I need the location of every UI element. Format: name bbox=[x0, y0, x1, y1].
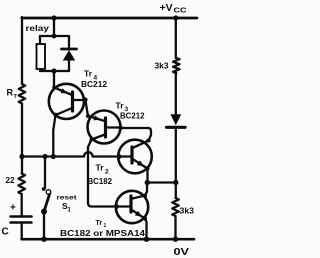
wire: left rail down to 22 resistor bbox=[21, 157, 23, 174]
wire: diode D2 to junction bbox=[175, 127, 177, 182]
node: junction dot on +Vcc rail above 3k3 bbox=[173, 15, 178, 20]
node: timing node junction dot on left rail bbox=[19, 154, 24, 159]
svg-text:relay: relay bbox=[26, 24, 50, 33]
svg-text:Tr: Tr bbox=[96, 163, 105, 173]
transistor Tr3 emitter (PNP arrow into base) bbox=[88, 116, 104, 121]
svg-text:R: R bbox=[7, 88, 14, 98]
svg-text:T: T bbox=[14, 94, 18, 100]
wire: relay bar down to Tr4 emitter bbox=[53, 71, 55, 87]
transistor Tr4 collector bbox=[53, 108, 72, 157]
wire: left rail from +Vcc down to RT bbox=[21, 17, 23, 84]
transistor Tr2 circle bbox=[118, 140, 152, 174]
transistor Tr3 base bar bbox=[104, 118, 107, 137]
svg-text:2: 2 bbox=[105, 169, 109, 176]
wire: Tr3 base to Tr2 collector bbox=[121, 128, 152, 148]
wire: top bar down to relay coil bbox=[39, 36, 41, 44]
wire: Tr1 base inside circle bbox=[117, 205, 130, 207]
node: dot Tr1 base at circle edge bbox=[114, 204, 119, 209]
svg-text:3k3: 3k3 bbox=[155, 62, 170, 71]
wire: Tr3 collector long vertical down to Tr1 base bbox=[88, 147, 117, 207]
svg-text:3k3: 3k3 bbox=[180, 207, 195, 216]
transistor Tr1 base bar bbox=[129, 196, 132, 212]
svg-text:BC212: BC212 bbox=[120, 112, 145, 121]
wire: relay/diode top bar bbox=[40, 35, 69, 37]
svg-text:Tr: Tr bbox=[96, 220, 103, 227]
wire: 0V bottom rail bbox=[22, 238, 194, 241]
wire: relay/diode bottom bar bbox=[40, 70, 69, 72]
node: junction dot on right rail bbox=[173, 180, 178, 185]
wire: diode branch from top bar bbox=[68, 36, 70, 49]
wire: capacitor to 0V rail bbox=[21, 223, 23, 240]
transistor Tr4 emitter (PNP arrow into base) bbox=[54, 88, 71, 95]
wire: junction down to 3k3 bottom bbox=[175, 183, 177, 199]
transistor Tr1 circle bbox=[116, 191, 148, 223]
wire: junction to right rail bbox=[147, 181, 176, 183]
transistor Tr4 base bar bbox=[71, 92, 74, 111]
node: dot reset-switch branch bbox=[42, 154, 47, 159]
svg-text:BC182: BC182 bbox=[88, 177, 113, 186]
wire: diode anode to bottom bar bbox=[68, 61, 70, 72]
wire: Tr3 base lead bbox=[107, 126, 121, 128]
wire: 3k3 bottom to 0V rail bbox=[174, 216, 176, 239]
resistor RT bbox=[19, 84, 26, 104]
switch S1 fixed contact bbox=[42, 187, 46, 191]
node: junction dot Tr2 emitter / Tr1 collector bbox=[145, 180, 150, 185]
transistor Tr3 circle bbox=[88, 111, 121, 144]
svg-text:Tr: Tr bbox=[116, 101, 125, 111]
diode D2 triangle (pointing down) bbox=[170, 114, 181, 125]
switch S1 bottom contact dot bbox=[41, 209, 47, 215]
wire: relay coil to bottom bar bbox=[39, 69, 41, 71]
transistor Tr2 collector bbox=[134, 141, 149, 148]
relay coil (rectangle) bbox=[37, 44, 46, 69]
transistor Tr1 collector bbox=[133, 183, 147, 199]
wire: long horizontal timing node to Tr2 base (hops over vertical) bbox=[22, 152, 131, 156]
transistor Tr2 base bar bbox=[130, 147, 133, 163]
resistor 3k3 (top) bbox=[173, 58, 180, 73]
diode D1 flyback cathode bar bbox=[62, 48, 77, 51]
node: dot 3k3 on 0V rail bbox=[173, 237, 178, 242]
wire: right rail from +Vcc to 3k3 bbox=[175, 18, 177, 58]
switch S1 lever bbox=[44, 194, 49, 210]
wire: 3k3 to diode D2 bbox=[175, 73, 177, 115]
svg-text:BC182 or MPSA14: BC182 or MPSA14 bbox=[60, 229, 146, 238]
wire: +Vcc top rail bbox=[22, 17, 197, 20]
wire: left rail RT to timing node bbox=[21, 104, 23, 157]
wire: 22 resistor to capacitor C bbox=[21, 194, 23, 216]
wire: Tr4 base lead bbox=[74, 99, 85, 101]
wire: switch S1 to 0V rail bbox=[43, 212, 45, 240]
transistor Tr3 collector bbox=[88, 135, 105, 148]
wire: Tr4 base down to Tr3 emitter bbox=[85, 100, 88, 116]
wire: stub from +Vcc rail down to relay/diode bar bbox=[53, 18, 55, 36]
wire: reset switch branch down from timing node bbox=[44, 157, 46, 189]
node: dot Tr4 collector joins timing-node wire bbox=[51, 154, 56, 159]
svg-text:CC: CC bbox=[174, 8, 187, 15]
node: dot Tr1 emitter on 0V rail bbox=[144, 237, 149, 242]
transistor Tr2 emitter (NPN arrow away from base) bbox=[133, 159, 148, 169]
transistor Tr1 emitter (NPN arrow away from base) bbox=[133, 211, 147, 240]
resistor 22 bbox=[18, 174, 25, 195]
capacitor C plates bbox=[11, 215, 32, 218]
transistor Tr4 circle bbox=[49, 84, 84, 119]
node: dot Tr3 base at circle edge bbox=[118, 125, 123, 130]
diode D1 flyback triangle (pointing up) bbox=[63, 50, 75, 61]
diode D2 cathode bar bbox=[167, 126, 186, 129]
resistor 3k3 (bottom) bbox=[172, 198, 179, 216]
svg-text:1: 1 bbox=[68, 208, 72, 214]
node: junction dot at relay/diode top bar bbox=[52, 34, 57, 39]
svg-text:22: 22 bbox=[6, 175, 15, 185]
svg-text:+: + bbox=[10, 203, 16, 214]
node: dot Tr2 base at circle edge bbox=[117, 154, 122, 159]
svg-text:+V: +V bbox=[160, 2, 173, 14]
svg-text:Tr: Tr bbox=[84, 69, 93, 79]
wire: Tr2 emitter down to junction bbox=[146, 169, 148, 183]
switch S1 lever end circle bbox=[46, 190, 51, 195]
svg-text:0V: 0V bbox=[174, 246, 190, 258]
node: junction dot on +Vcc rail above relay branch bbox=[51, 15, 56, 20]
svg-text:BC212: BC212 bbox=[81, 80, 108, 89]
node: junction dot on relay bottom bar bbox=[51, 68, 56, 73]
node: dot switch on 0V rail bbox=[41, 237, 46, 242]
node: dot at Tr4 base bend bbox=[83, 97, 88, 102]
svg-text:C: C bbox=[2, 227, 9, 238]
